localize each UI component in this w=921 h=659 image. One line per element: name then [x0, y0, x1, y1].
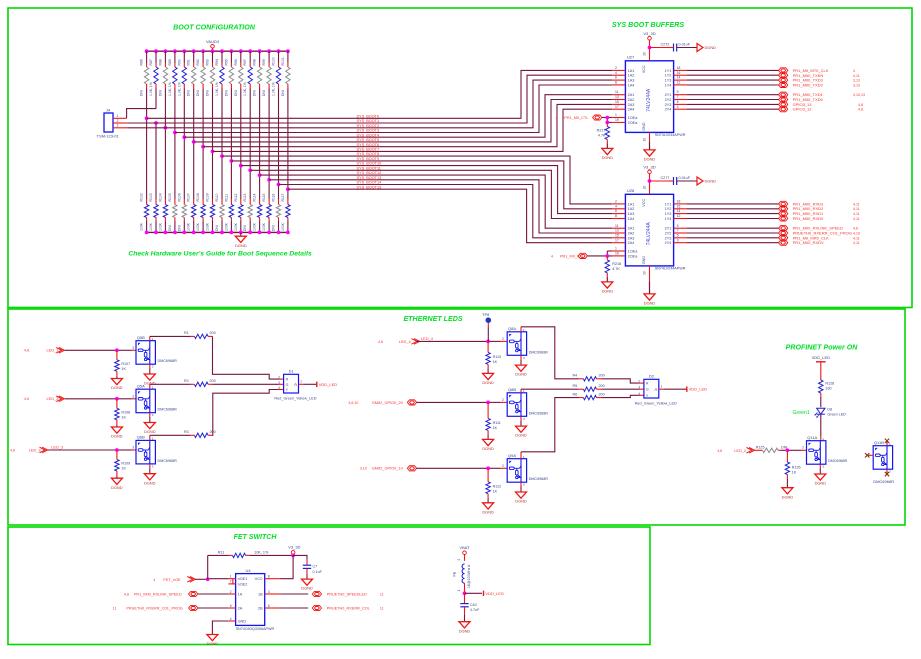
wire LED_4 to Q: [417, 340, 489, 342]
ground DGND U27 GND pin: [649, 132, 651, 142]
svg-text:DMC6968R: DMC6968R: [158, 359, 178, 363]
node VCC bypass U27: [648, 46, 652, 50]
svg-text:3,10,13: 3,10,13: [853, 93, 865, 97]
wire LED to Q11A collector: [820, 414, 822, 436]
off-page port GPIO3_13: [779, 102, 788, 107]
svg-text:4,11: 4,11: [853, 202, 860, 206]
resistor R125 DNI: [755, 445, 788, 452]
wire net PR1_MII0_RXD1: [687, 213, 779, 215]
svg-text:Q5B: Q5B: [137, 335, 145, 340]
svg-text:9: 9: [677, 224, 679, 228]
svg-text:2Y3: 2Y3: [665, 103, 672, 107]
wire net SYS_BOOT10: [241, 166, 612, 214]
svg-text:Q11B: Q11B: [874, 440, 884, 445]
svg-text:6: 6: [615, 209, 617, 213]
svg-text:DGND: DGND: [644, 301, 656, 306]
wire net PR1_MII0_TXEN: [687, 74, 779, 76]
resistor R100 pull-up 1.0K, 1%: [272, 51, 281, 96]
svg-text:R91: R91: [187, 59, 191, 65]
svg-text:GPIO3_12: GPIO3_12: [793, 107, 813, 112]
wire pull-up rail: [147, 50, 288, 52]
transistor Q8A: [507, 332, 526, 356]
svg-text:3: 3: [278, 381, 280, 385]
svg-text:R116: R116: [272, 194, 276, 202]
node top rail col 6: [192, 49, 196, 53]
ground DGND R218: [606, 277, 608, 282]
node top rail col 16: [286, 49, 290, 53]
svg-text:SYS_BOOT9: SYS_BOOT9: [357, 157, 380, 161]
wire R3 to D1 pin4: [213, 390, 279, 436]
resistor R2 200: [150, 379, 216, 389]
svg-text:1A3: 1A3: [628, 79, 635, 83]
svg-text:ETHERNET LEDS: ETHERNET LEDS: [403, 315, 462, 323]
svg-text:DMC6968R: DMC6968R: [158, 408, 178, 412]
resistor R109 pull-down 100K: [206, 193, 215, 232]
svg-text:R: R: [646, 382, 649, 386]
svg-text:1Y1: 1Y1: [665, 202, 672, 206]
wire GMII2_GPIO0_10 to Q: [417, 467, 489, 469]
node top rail col 5: [182, 49, 186, 53]
node LED_2 pulldown: [115, 397, 119, 401]
resistor R113 pull-down DNI: [243, 194, 252, 233]
wire R125 to Q11A base: [782, 449, 788, 451]
svg-text:Q11A: Q11A: [807, 435, 817, 440]
svg-text:FET SWITCH: FET SWITCH: [234, 534, 278, 541]
svg-text:20: 20: [643, 52, 647, 56]
ground DGND Q11A emitter: [819, 464, 821, 468]
svg-text:R93: R93: [206, 59, 210, 65]
svg-text:VDD_LED: VDD_LED: [812, 355, 831, 360]
connector J4 TSM-123-01: [97, 108, 120, 139]
svg-text:13: 13: [615, 95, 619, 99]
off-page port PR1_MII_MR0_CLK: [779, 235, 788, 240]
svg-text:DNI: DNI: [177, 225, 181, 231]
svg-text:6: 6: [615, 76, 617, 80]
resistor R107 1K: [115, 350, 131, 376]
wire OE tie U27: [602, 117, 612, 119]
svg-text:1A2: 1A2: [628, 207, 635, 211]
svg-text:R96: R96: [234, 59, 238, 65]
resistor R99 pull-up DNI: [262, 51, 271, 96]
node bottom rail col 9: [220, 231, 224, 235]
wire net SYS_BOOT6: [203, 104, 612, 146]
svg-text:8: 8: [615, 214, 617, 218]
svg-text:Red_Green_Yellow_LED: Red_Green_Yellow_LED: [274, 397, 316, 401]
svg-text:3,13: 3,13: [853, 84, 860, 88]
svg-text:1K: 1K: [121, 415, 126, 419]
svg-text:C277: C277: [661, 176, 670, 180]
node bottom rail col 3: [164, 231, 168, 235]
wire TP8: [487, 323, 489, 328]
resistor R94 pull-up 1.0K, 1%: [215, 51, 224, 96]
off-page port GPIO3_12: [779, 107, 788, 112]
svg-text:4: 4: [153, 578, 155, 582]
node base Q11A: [786, 448, 790, 452]
resistor R86 pull-up DNI: [140, 51, 149, 96]
svg-text:1K: 1K: [493, 489, 498, 493]
svg-text:4: 4: [230, 617, 232, 621]
wire R5 to D2 pin3: [602, 388, 639, 390]
node LED_1 pulldown: [115, 348, 119, 352]
svg-text:1K: 1K: [792, 471, 797, 475]
port GMII2_GPIO0_10: [360, 466, 417, 471]
svg-text:SN74CB3Q3306APWR: SN74CB3Q3306APWR: [236, 627, 275, 631]
svg-text:LED_3: LED_3: [51, 445, 63, 450]
svg-text:4,6: 4,6: [717, 449, 722, 453]
svg-text:1.0K, 1%: 1.0K, 1%: [272, 82, 276, 96]
wire net SYS_BOOT14: [279, 185, 613, 238]
no-connect Q11B collector: [886, 441, 888, 445]
svg-text:R3: R3: [184, 430, 189, 434]
resistor R92 pull-up DNI: [196, 51, 205, 96]
svg-text:nOE2: nOE2: [238, 582, 248, 586]
svg-text:5: 5: [230, 604, 232, 608]
svg-text:D1: D1: [289, 369, 295, 374]
node column 9 to SYS_BOOT8: [220, 154, 224, 158]
svg-text:DGND: DGND: [515, 499, 527, 504]
svg-text:R6: R6: [573, 392, 578, 396]
capacitor C7 0.1uF: [293, 555, 323, 579]
svg-text:2: 2: [230, 590, 232, 594]
svg-text:Red_Green_Yellow_LED: Red_Green_Yellow_LED: [635, 402, 677, 406]
wire VAUD3 to pull-up rail: [212, 48, 214, 51]
svg-text:19: 19: [615, 252, 619, 256]
svg-text:DGND: DGND: [705, 179, 717, 184]
svg-text:2OEa: 2OEa: [628, 254, 639, 258]
node bottom rail col 11: [239, 231, 243, 235]
svg-text:SYS_BOOT12: SYS_BOOT12: [357, 171, 382, 175]
resistor R105 pull-down DNI: [168, 193, 177, 232]
svg-text:0.01uF: 0.01uF: [679, 42, 691, 46]
svg-text:DNI: DNI: [158, 90, 162, 96]
svg-text:1K: 1K: [493, 360, 498, 364]
wire column 15 mid: [278, 89, 280, 200]
svg-text:DGND: DGND: [482, 509, 494, 514]
svg-text:DGND: DGND: [207, 641, 219, 646]
svg-text:13: 13: [615, 229, 619, 233]
svg-text:3,6,10: 3,6,10: [348, 401, 358, 405]
node bottom rail col 14: [267, 231, 271, 235]
off-page port PR1_MII0_RXD1: [779, 211, 788, 216]
off-page port PR1_MII0_TXD1: [779, 92, 788, 97]
svg-text:2A1: 2A1: [628, 93, 635, 97]
node column 12 to SYS_BOOT11: [248, 168, 252, 172]
svg-text:DNI: DNI: [215, 225, 219, 231]
svg-text:DGND: DGND: [111, 385, 123, 390]
wire column 5 mid: [183, 89, 185, 200]
svg-text:1Y2: 1Y2: [665, 207, 672, 211]
ground DGND Q5B emitter: [149, 364, 151, 368]
wire column 16 mid: [287, 89, 289, 200]
svg-text:14: 14: [677, 209, 681, 213]
resistor R107 pull-down 100K: [187, 193, 196, 232]
ground DGND Q5A emitter: [149, 413, 151, 417]
svg-text:15: 15: [615, 100, 619, 104]
power V3_3D for U28: [648, 170, 652, 174]
LED D8 Green LED: [793, 408, 847, 418]
port GMII2_GPIO0_20: [348, 400, 416, 405]
svg-text:VCC: VCC: [642, 65, 646, 73]
node bottom rail col 12: [248, 231, 252, 235]
wire column 4 mid: [174, 89, 176, 200]
svg-text:3,10: 3,10: [360, 467, 367, 471]
svg-text:Green1: Green1: [793, 410, 810, 416]
svg-text:DNI: DNI: [234, 90, 238, 96]
svg-text:VCC: VCC: [255, 577, 263, 581]
node bottom rail col 16: [286, 231, 290, 235]
svg-text:SYS_BOOT6: SYS_BOOT6: [357, 143, 380, 147]
svg-text:SYS_BOOT13: SYS_BOOT13: [357, 176, 382, 180]
svg-text:2Y2: 2Y2: [665, 98, 672, 102]
wire OE tie U28: [588, 255, 613, 257]
wire VBAT to FB: [464, 555, 466, 561]
svg-text:10: 10: [643, 138, 647, 142]
node column 5 to SYS_BOOT4: [182, 135, 186, 139]
resistor R96 pull-up DNI: [234, 51, 243, 96]
transistor Q9A: [507, 459, 526, 483]
node top rail col 14: [267, 49, 271, 53]
node top rail col 1: [145, 49, 149, 53]
svg-text:1.0K, 1%: 1.0K, 1%: [243, 82, 247, 96]
svg-text:R97: R97: [243, 59, 247, 65]
svg-text:1A4: 1A4: [628, 83, 635, 87]
resistor R6 200: [521, 392, 605, 458]
svg-text:SYS_BOOT2: SYS_BOOT2: [357, 124, 380, 128]
node FET_nOE: [206, 577, 210, 581]
svg-text:SYS BOOT BUFFERS: SYS BOOT BUFFERS: [612, 21, 684, 29]
svg-text:PR1_MII0_RXDV: PR1_MII0_RXDV: [793, 240, 824, 245]
resistor R89 pull-up 1.0K, 1%: [168, 51, 177, 96]
resistor R108 1K: [115, 399, 131, 425]
svg-text:R92: R92: [196, 59, 200, 65]
svg-text:SYS_BOOT7: SYS_BOOT7: [357, 148, 380, 152]
port LED_2: [24, 396, 64, 402]
wire net PR1_MII0_RXD3: [687, 203, 779, 205]
svg-text:DNI: DNI: [243, 225, 247, 231]
svg-text:FB: FB: [453, 571, 457, 576]
port PRUETH0_RXERR_COL_PROG: [113, 605, 198, 610]
wire VCC U4: [280, 555, 293, 578]
connector pin 3: [113, 127, 127, 129]
svg-text:DGND: DGND: [644, 157, 656, 162]
svg-text:R109: R109: [206, 193, 210, 201]
node bottom rail col 8: [211, 231, 215, 235]
transistor Q6B: [136, 440, 155, 464]
svg-text:DGND: DGND: [111, 434, 123, 439]
svg-text:PR1_MII0_TXD2: PR1_MII0_TXD2: [793, 83, 824, 88]
svg-text:FET_nOE: FET_nOE: [163, 577, 181, 582]
node column 3 to SYS_BOOT2: [164, 126, 168, 130]
svg-text:1Y2: 1Y2: [665, 74, 672, 78]
wire VCC U27: [649, 40, 651, 47]
wire R128 to LED: [820, 397, 822, 407]
node bottom rail col 1: [145, 231, 149, 235]
wire D2 anode to VDD_LED: [659, 388, 664, 390]
wire column 8 mid: [212, 89, 214, 200]
svg-text:4,10: 4,10: [853, 232, 860, 236]
power VAUD3: [211, 45, 215, 49]
resistor R109 1K: [115, 450, 131, 476]
svg-text:2: 2: [802, 446, 804, 450]
svg-text:2A: 2A: [238, 607, 243, 611]
node top rail col 15: [277, 49, 281, 53]
svg-text:1: 1: [230, 575, 232, 579]
svg-text:LED_3: LED_3: [29, 447, 41, 452]
node top rail col 9: [220, 49, 224, 53]
wire 1B out: [280, 593, 308, 595]
node GMII2_GPIO0_20 pulldown: [486, 401, 490, 405]
capacitor C277 0.01uF: [650, 176, 698, 185]
resistor R97 pull-up 1.0K, 1%: [243, 51, 252, 96]
node top rail col 12: [248, 49, 252, 53]
svg-text:R115: R115: [262, 194, 266, 202]
svg-text:DNI: DNI: [253, 90, 257, 96]
node V3_3D fet: [291, 554, 295, 558]
svg-text:C40: C40: [470, 603, 477, 607]
svg-text:DMC6968R: DMC6968R: [529, 411, 549, 415]
svg-text:R11: R11: [218, 550, 225, 554]
svg-text:4,8: 4,8: [858, 108, 863, 112]
svg-text:R111: R111: [224, 194, 228, 202]
capacitor C272 0.01uF: [650, 42, 698, 51]
resistor R98 pull-up DNI: [253, 51, 262, 96]
node bottom rail col 6: [192, 231, 196, 235]
svg-text:C7: C7: [313, 565, 318, 569]
wire column 1 mid: [146, 89, 148, 200]
wire net PR1_MII0_TXD3: [687, 79, 779, 81]
wire net SYS_BOOT2: [127, 80, 612, 128]
ground DGND R126: [786, 479, 788, 488]
wire net PR1_MII0_RXD0: [687, 218, 779, 220]
svg-text:R100: R100: [272, 57, 276, 65]
svg-text:1OEa: 1OEa: [628, 250, 639, 254]
svg-text:11: 11: [113, 607, 117, 611]
ground DGND Q6B emitter: [149, 464, 151, 468]
svg-text:3: 3: [132, 394, 134, 398]
svg-text:DMC6968R: DMC6968R: [873, 479, 894, 484]
wire 1A: [198, 593, 229, 595]
svg-text:7: 7: [677, 229, 679, 233]
resistor R3 200: [150, 430, 216, 440]
svg-text:17: 17: [615, 238, 619, 242]
wire net SYS_BOOT15: [288, 189, 612, 243]
resistor R90 pull-up 1.0K, 1%: [177, 51, 186, 96]
port PR1_MII0_RXLINK_SPEED: [124, 591, 198, 596]
wire pull-down rail: [147, 231, 288, 233]
resistor R112 pull-down 100K: [234, 194, 243, 233]
svg-text:DMC6968R: DMC6968R: [158, 459, 178, 463]
off-page port PRUETH0_RXERR_COL_PROG: [779, 230, 788, 235]
svg-text:4.7uF: 4.7uF: [470, 608, 480, 612]
svg-text:R99: R99: [262, 59, 266, 65]
resistor R93 pull-up DNI: [206, 51, 215, 96]
power VBAT: [463, 551, 467, 555]
svg-text:V3_3D: V3_3D: [288, 544, 300, 549]
wire net PR1_MII0_TXD2: [687, 84, 779, 86]
svg-text:4: 4: [551, 254, 553, 258]
svg-text:1Y4: 1Y4: [665, 217, 672, 221]
LED D1 Red_Green_Yellow_LED: [274, 369, 316, 401]
svg-text:12: 12: [677, 214, 681, 218]
svg-text:200: 200: [210, 379, 216, 383]
svg-text:3: 3: [638, 386, 640, 390]
wire net SYS_BOOT1: [127, 75, 612, 123]
resistor R4 200: [521, 327, 605, 381]
svg-text:15: 15: [615, 233, 619, 237]
node GMII2_GPIO0_10 pulldown: [486, 466, 490, 470]
svg-text:100K: 100K: [262, 222, 266, 231]
svg-text:R2: R2: [184, 379, 189, 383]
svg-text:Q6B: Q6B: [137, 435, 145, 440]
svg-text:2: 2: [502, 398, 504, 402]
wire column 12 mid: [249, 89, 251, 200]
svg-text:1A1: 1A1: [628, 202, 635, 206]
power VDD_LED fet: [465, 592, 483, 594]
resistor R112 1K: [486, 468, 501, 498]
resistor R87 pull-up 1.0K, 1%: [149, 51, 158, 96]
resistor R102 pull-down 100K: [140, 193, 149, 232]
svg-text:SYS_BOOT15: SYS_BOOT15: [357, 185, 382, 189]
svg-text:A: A: [294, 382, 297, 387]
svg-text:4,11: 4,11: [853, 217, 860, 221]
wire net PR1_MII_MT0_CLK: [687, 69, 779, 71]
svg-text:1A3: 1A3: [628, 212, 635, 216]
resistor R11 10K,1%: [208, 550, 293, 579]
wire net PR1_MII_MR0_CLK: [687, 237, 779, 239]
wire pin1 to column 2 pull-up: [127, 109, 156, 119]
svg-text:200: 200: [599, 374, 605, 378]
svg-text:U4: U4: [246, 568, 252, 573]
off-page port PR1_MII0_TXEN: [779, 73, 788, 78]
node column 8 to SYS_BOOT7: [211, 150, 215, 154]
ground DGND Q8A emitter: [520, 355, 522, 359]
svg-text:100K: 100K: [187, 222, 191, 231]
svg-text:4,6: 4,6: [378, 340, 383, 344]
off-page port PR1_MII0_TXD2: [779, 82, 788, 87]
off-page port PR1_MII0_TXD3: [779, 78, 788, 83]
svg-text:2A4: 2A4: [628, 241, 635, 245]
resistor R128 330: [819, 362, 835, 397]
node bottom rail col 15: [277, 231, 281, 235]
off-page port PR1_MII0_RXD0: [779, 216, 788, 221]
wire D1 anode to VDD_LED: [299, 383, 304, 385]
svg-text:R217: R217: [597, 128, 606, 132]
svg-text:11: 11: [380, 593, 384, 597]
svg-text:16: 16: [677, 71, 681, 75]
svg-text:1: 1: [457, 590, 461, 592]
svg-text:DMC6968R: DMC6968R: [828, 459, 848, 463]
svg-text:2Y1: 2Y1: [665, 93, 672, 97]
svg-text:200: 200: [599, 392, 605, 396]
power V3_3D fet: [291, 551, 295, 555]
resistor R103 pull-down 100K: [149, 193, 158, 232]
svg-text:17: 17: [615, 105, 619, 109]
off-page port PRUETH0_RXERR_COL: [312, 605, 321, 610]
svg-text:DNI: DNI: [281, 90, 285, 96]
svg-text:18: 18: [677, 200, 681, 204]
svg-text:2A3: 2A3: [628, 236, 635, 240]
wire LED_2 to Q: [65, 398, 117, 400]
svg-text:1K: 1K: [121, 367, 126, 371]
ground DGND U28 GND pin: [649, 266, 651, 281]
svg-text:DGND: DGND: [144, 429, 156, 434]
port LED_1: [24, 348, 64, 354]
wire column 13 mid: [259, 89, 261, 200]
svg-text:R104: R104: [158, 193, 162, 201]
wire column 9 mid: [221, 89, 223, 200]
transistor Q8B: [507, 393, 526, 417]
svg-text:2A2: 2A2: [628, 232, 635, 236]
